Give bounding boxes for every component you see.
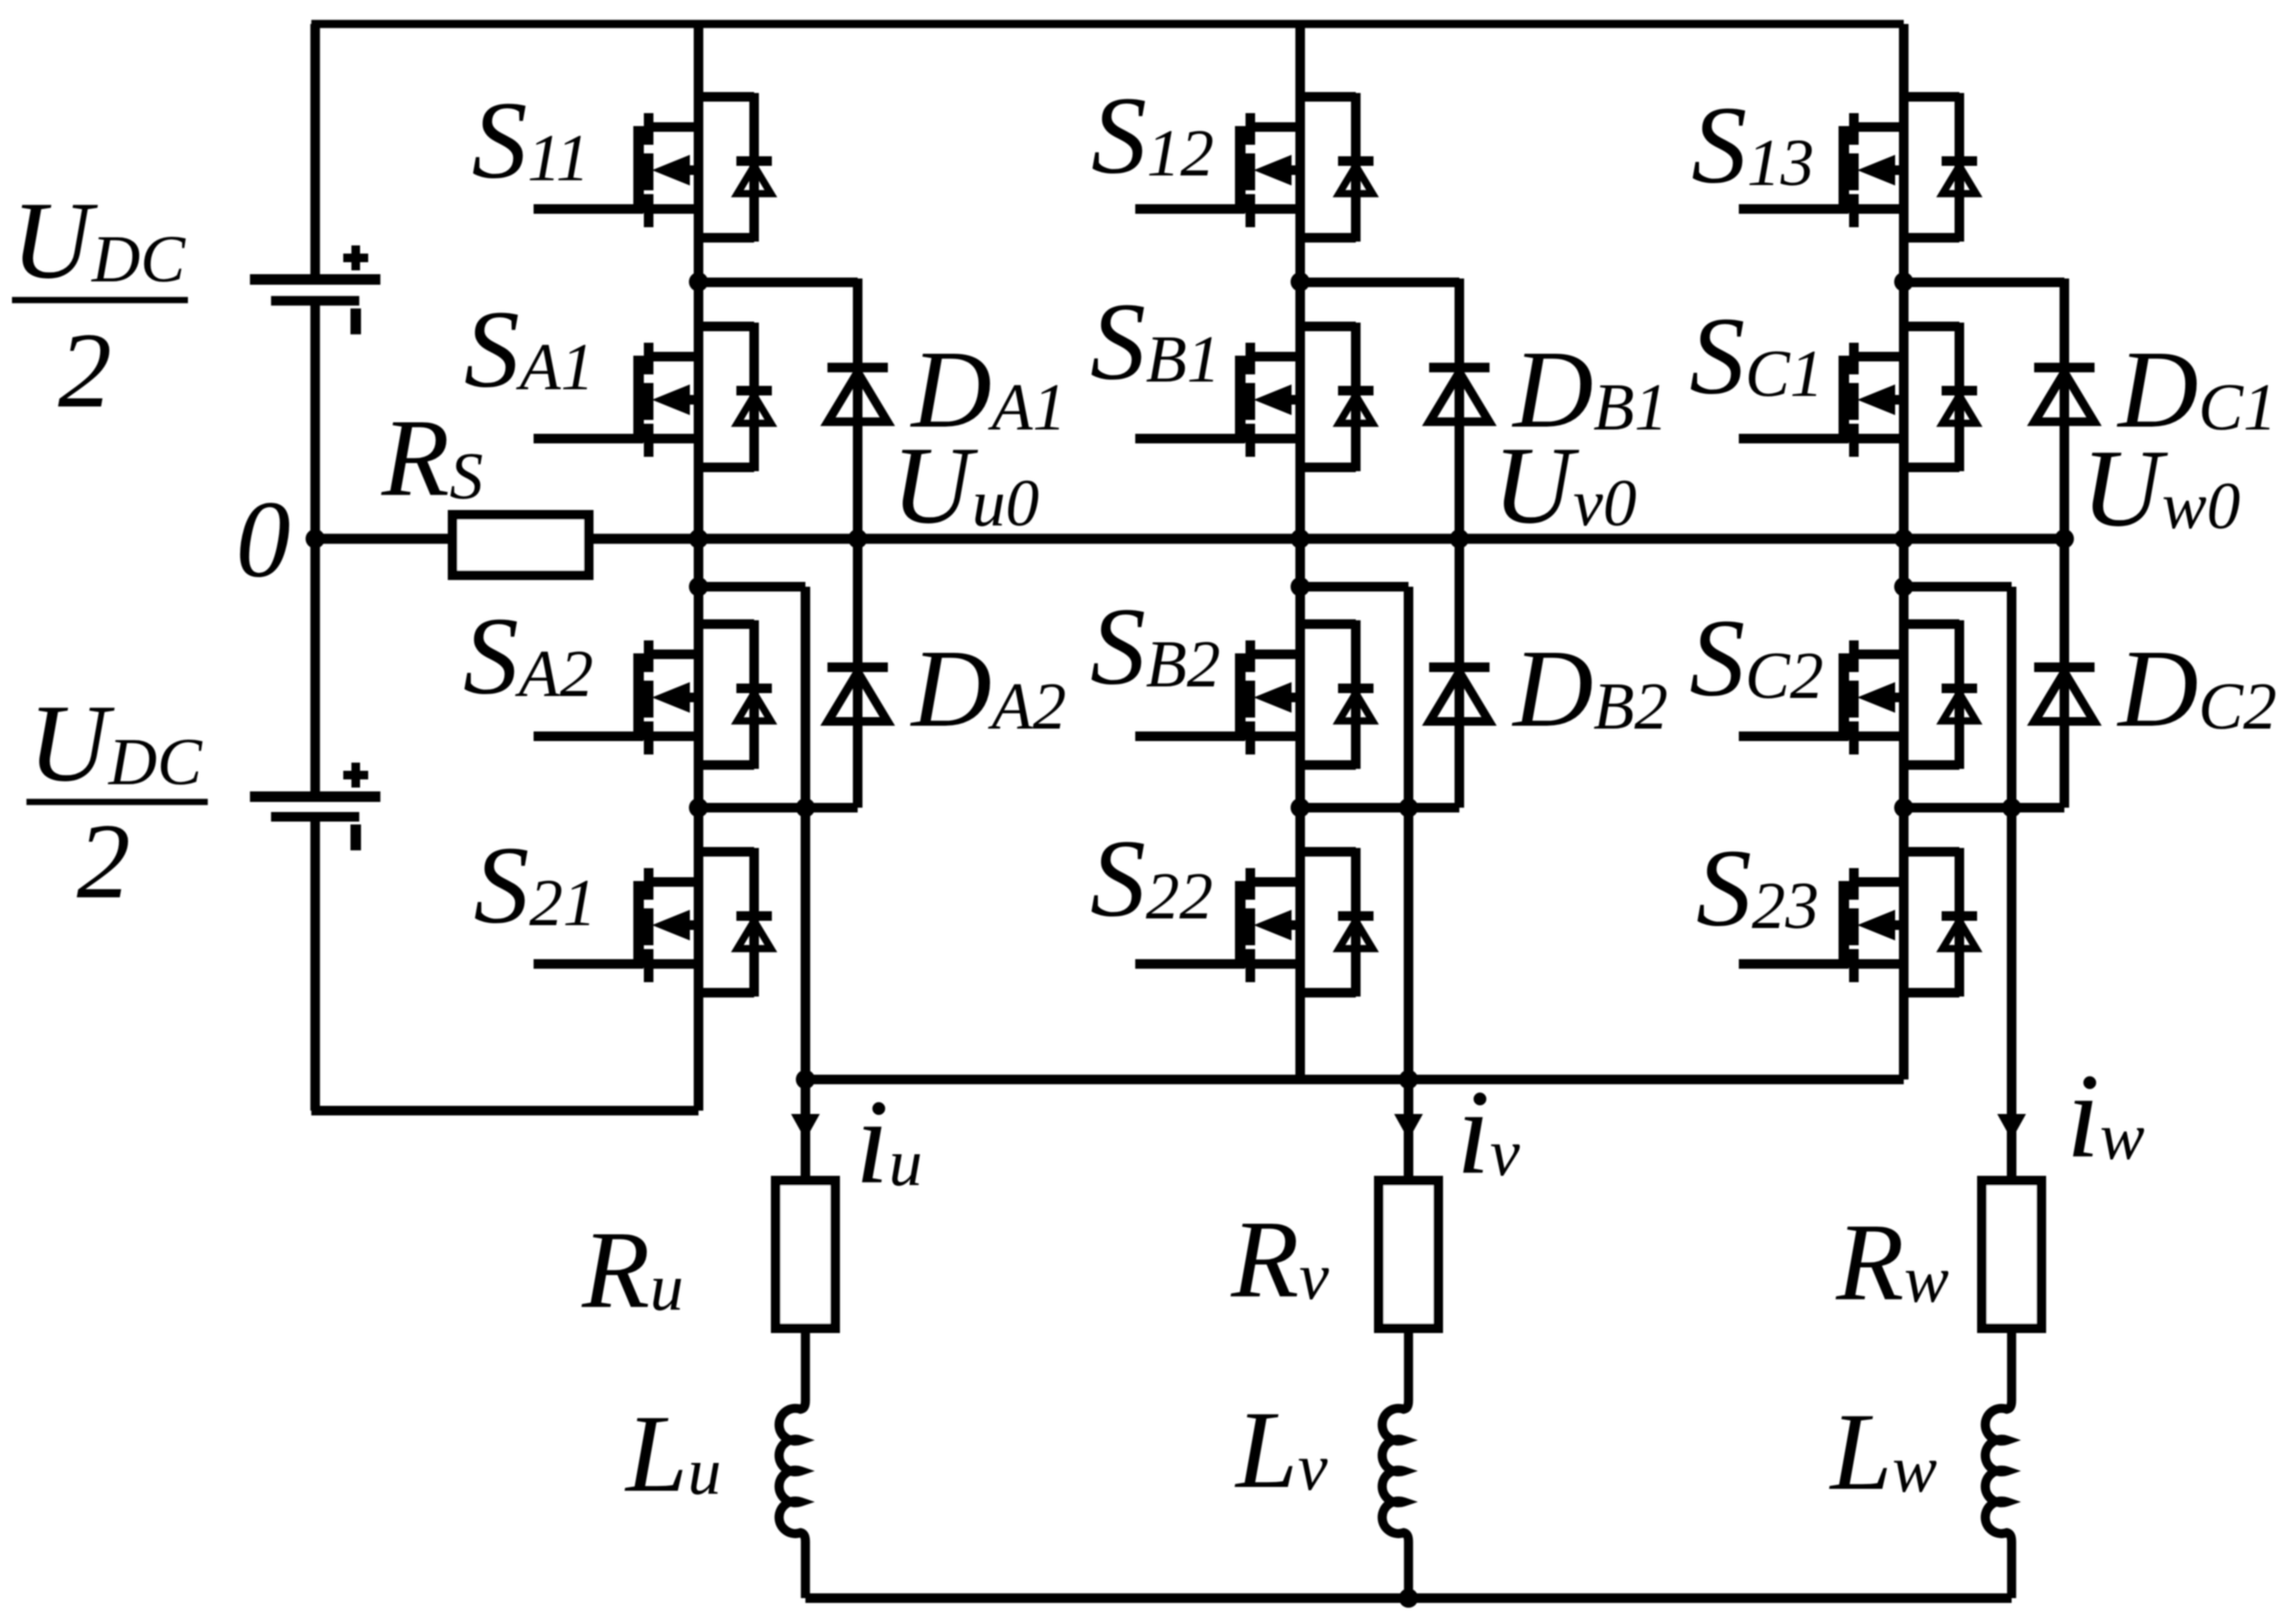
node output tap junction dot: [689, 577, 709, 596]
transistor SC2: [1739, 620, 1978, 769]
wire: phase v output tap: [1300, 587, 1409, 1182]
label DB1: [1511, 329, 1668, 452]
label Ru: [581, 1209, 684, 1332]
node SA2 source junction dot: [689, 799, 709, 818]
resistor R_S: [453, 515, 589, 575]
inductor Lv: [1383, 1328, 1409, 1598]
label S11: [472, 80, 590, 202]
label SC2: [1689, 597, 1824, 720]
wire: phase w leg vertical: [1899, 24, 1909, 1079]
node output-source crossing dot: [796, 799, 815, 818]
wire: DB2 bottom branch: [1300, 803, 1459, 813]
node S11-SA1 junction dot: [689, 272, 709, 291]
wire: DB1 top branch: [1300, 278, 1459, 288]
label i_v: [1456, 1066, 1521, 1199]
label DA2: [910, 628, 1067, 751]
node output-source crossing dot: [2002, 799, 2021, 818]
transistor S21: [534, 848, 773, 997]
label Rv: [1230, 1198, 1330, 1321]
label U_DC/2 (lower): [27, 683, 208, 921]
wire: bottom DC- rail: [312, 1106, 699, 1116]
diode DA2: [827, 539, 888, 808]
node DB1-DB2 neutral junction dot: [1450, 529, 1469, 548]
transistor SA2: [534, 620, 773, 769]
node leg-neutral junction dot: [1895, 529, 1914, 548]
node load rail junction dot: [1399, 1589, 1418, 1608]
battery B1 (upper U_DC/2 source): [250, 245, 381, 335]
label Uv0: [1493, 425, 1637, 547]
current arrow i_w: [1997, 1114, 2026, 1140]
diode DB1: [1430, 279, 1490, 540]
svg-text:2: 2: [58, 312, 112, 430]
wire: left DC bus middle segment: [311, 301, 320, 797]
inductor Lw: [1986, 1328, 2012, 1598]
label SA2: [463, 595, 594, 718]
wire: phase v leg vertical: [1295, 24, 1305, 1079]
node output-source crossing dot: [1399, 799, 1418, 818]
label SB2: [1090, 586, 1221, 708]
transistor S11: [534, 93, 773, 242]
transistor SA1: [534, 323, 773, 472]
label 0 (neutral node): [236, 478, 291, 600]
wire: phase u output tap: [699, 587, 806, 1182]
label R_S: [381, 397, 483, 520]
node output tap junction dot: [1291, 577, 1310, 596]
wire: neutral 0 line: [315, 534, 2064, 545]
wire: DA1 top branch: [699, 278, 858, 288]
label S21: [474, 824, 596, 947]
label S23: [1696, 827, 1819, 950]
battery B2 (lower U_DC/2 source): [250, 763, 381, 851]
node output-rail junction dot: [1399, 1070, 1418, 1089]
wire: lower output rail: [805, 1075, 1904, 1084]
resistor Rw: [1982, 1181, 2041, 1329]
node leg-neutral junction dot: [689, 529, 709, 548]
node output-rail junction dot: [796, 1070, 815, 1089]
transistor S23: [1739, 848, 1978, 997]
label S22: [1090, 818, 1213, 940]
node SB2 source junction dot: [1291, 799, 1310, 818]
label SC1: [1689, 295, 1824, 418]
svg-text:2: 2: [77, 802, 130, 921]
label i_u: [855, 1076, 922, 1209]
node output tap junction dot: [1895, 577, 1914, 596]
label Lv: [1234, 1389, 1329, 1512]
label DA1: [910, 329, 1067, 452]
current arrow i_u: [791, 1114, 820, 1140]
resistor Rv: [1379, 1181, 1438, 1329]
label U_DC/2 (upper): [12, 180, 188, 431]
inductor Lu: [780, 1328, 805, 1598]
node DA1-DA2 neutral junction dot: [849, 529, 868, 548]
label DC1: [2116, 329, 2276, 452]
label DB2: [1511, 628, 1668, 751]
wire: load bottom rail: [805, 1593, 2012, 1603]
diode DC2: [2035, 539, 2095, 808]
label SA1: [464, 289, 594, 411]
diode DC1: [2035, 279, 2095, 540]
node S12-SB1 junction dot: [1291, 272, 1310, 291]
wire: left DC bus upper segment: [311, 24, 320, 280]
transistor SC1: [1739, 323, 1978, 472]
current arrow i_v: [1394, 1114, 1423, 1140]
node S13-SC1 junction dot: [1895, 272, 1914, 291]
wire: DA2 bottom branch: [699, 803, 858, 813]
wire: DC2 bottom branch: [1904, 803, 2065, 813]
wire: left DC bus lower segment: [311, 817, 320, 1111]
diode DB2: [1430, 539, 1490, 808]
label SB1: [1090, 281, 1221, 404]
label S12: [1091, 75, 1214, 197]
node DC1-DC2 neutral junction dot: [2055, 529, 2074, 548]
svg-text:0: 0: [236, 478, 291, 600]
wire: phase u leg vertical: [694, 24, 704, 1111]
diode DA1: [827, 279, 888, 540]
label S13: [1691, 84, 1814, 207]
node 0 junction dot: [306, 529, 325, 548]
label Rw: [1835, 1201, 1949, 1324]
wire: DC1 top branch: [1904, 278, 2065, 288]
node leg-neutral junction dot: [1291, 529, 1310, 548]
resistor Ru: [776, 1181, 835, 1329]
transistor S22: [1135, 848, 1374, 997]
transistor SB1: [1135, 323, 1374, 472]
label i_w: [2066, 1050, 2145, 1183]
label DC2: [2116, 628, 2276, 751]
transistor SB2: [1135, 620, 1374, 769]
wire: phase w output tap: [1904, 587, 2013, 1182]
label Lu: [624, 1393, 722, 1516]
transistor S12: [1135, 93, 1374, 242]
node SC2 source junction dot: [1895, 799, 1914, 818]
transistor S13: [1739, 93, 1978, 242]
label Uu0: [892, 425, 1039, 547]
label Lw: [1828, 1391, 1938, 1514]
wire: top DC+ bus: [312, 20, 1904, 29]
label Uw0: [2082, 428, 2240, 550]
